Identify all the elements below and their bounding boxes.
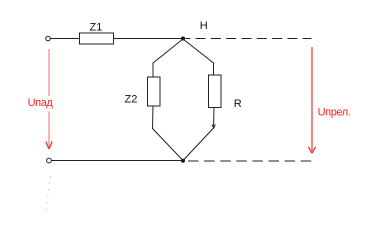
svg-text:H: H (200, 20, 208, 32)
svg-text:Z1: Z1 (90, 22, 103, 34)
svg-text:Uпрел.: Uпрел. (318, 106, 351, 118)
svg-text:Z2: Z2 (125, 94, 138, 106)
svg-text:Uпад: Uпад (28, 97, 54, 109)
svg-text:R: R (234, 98, 242, 110)
